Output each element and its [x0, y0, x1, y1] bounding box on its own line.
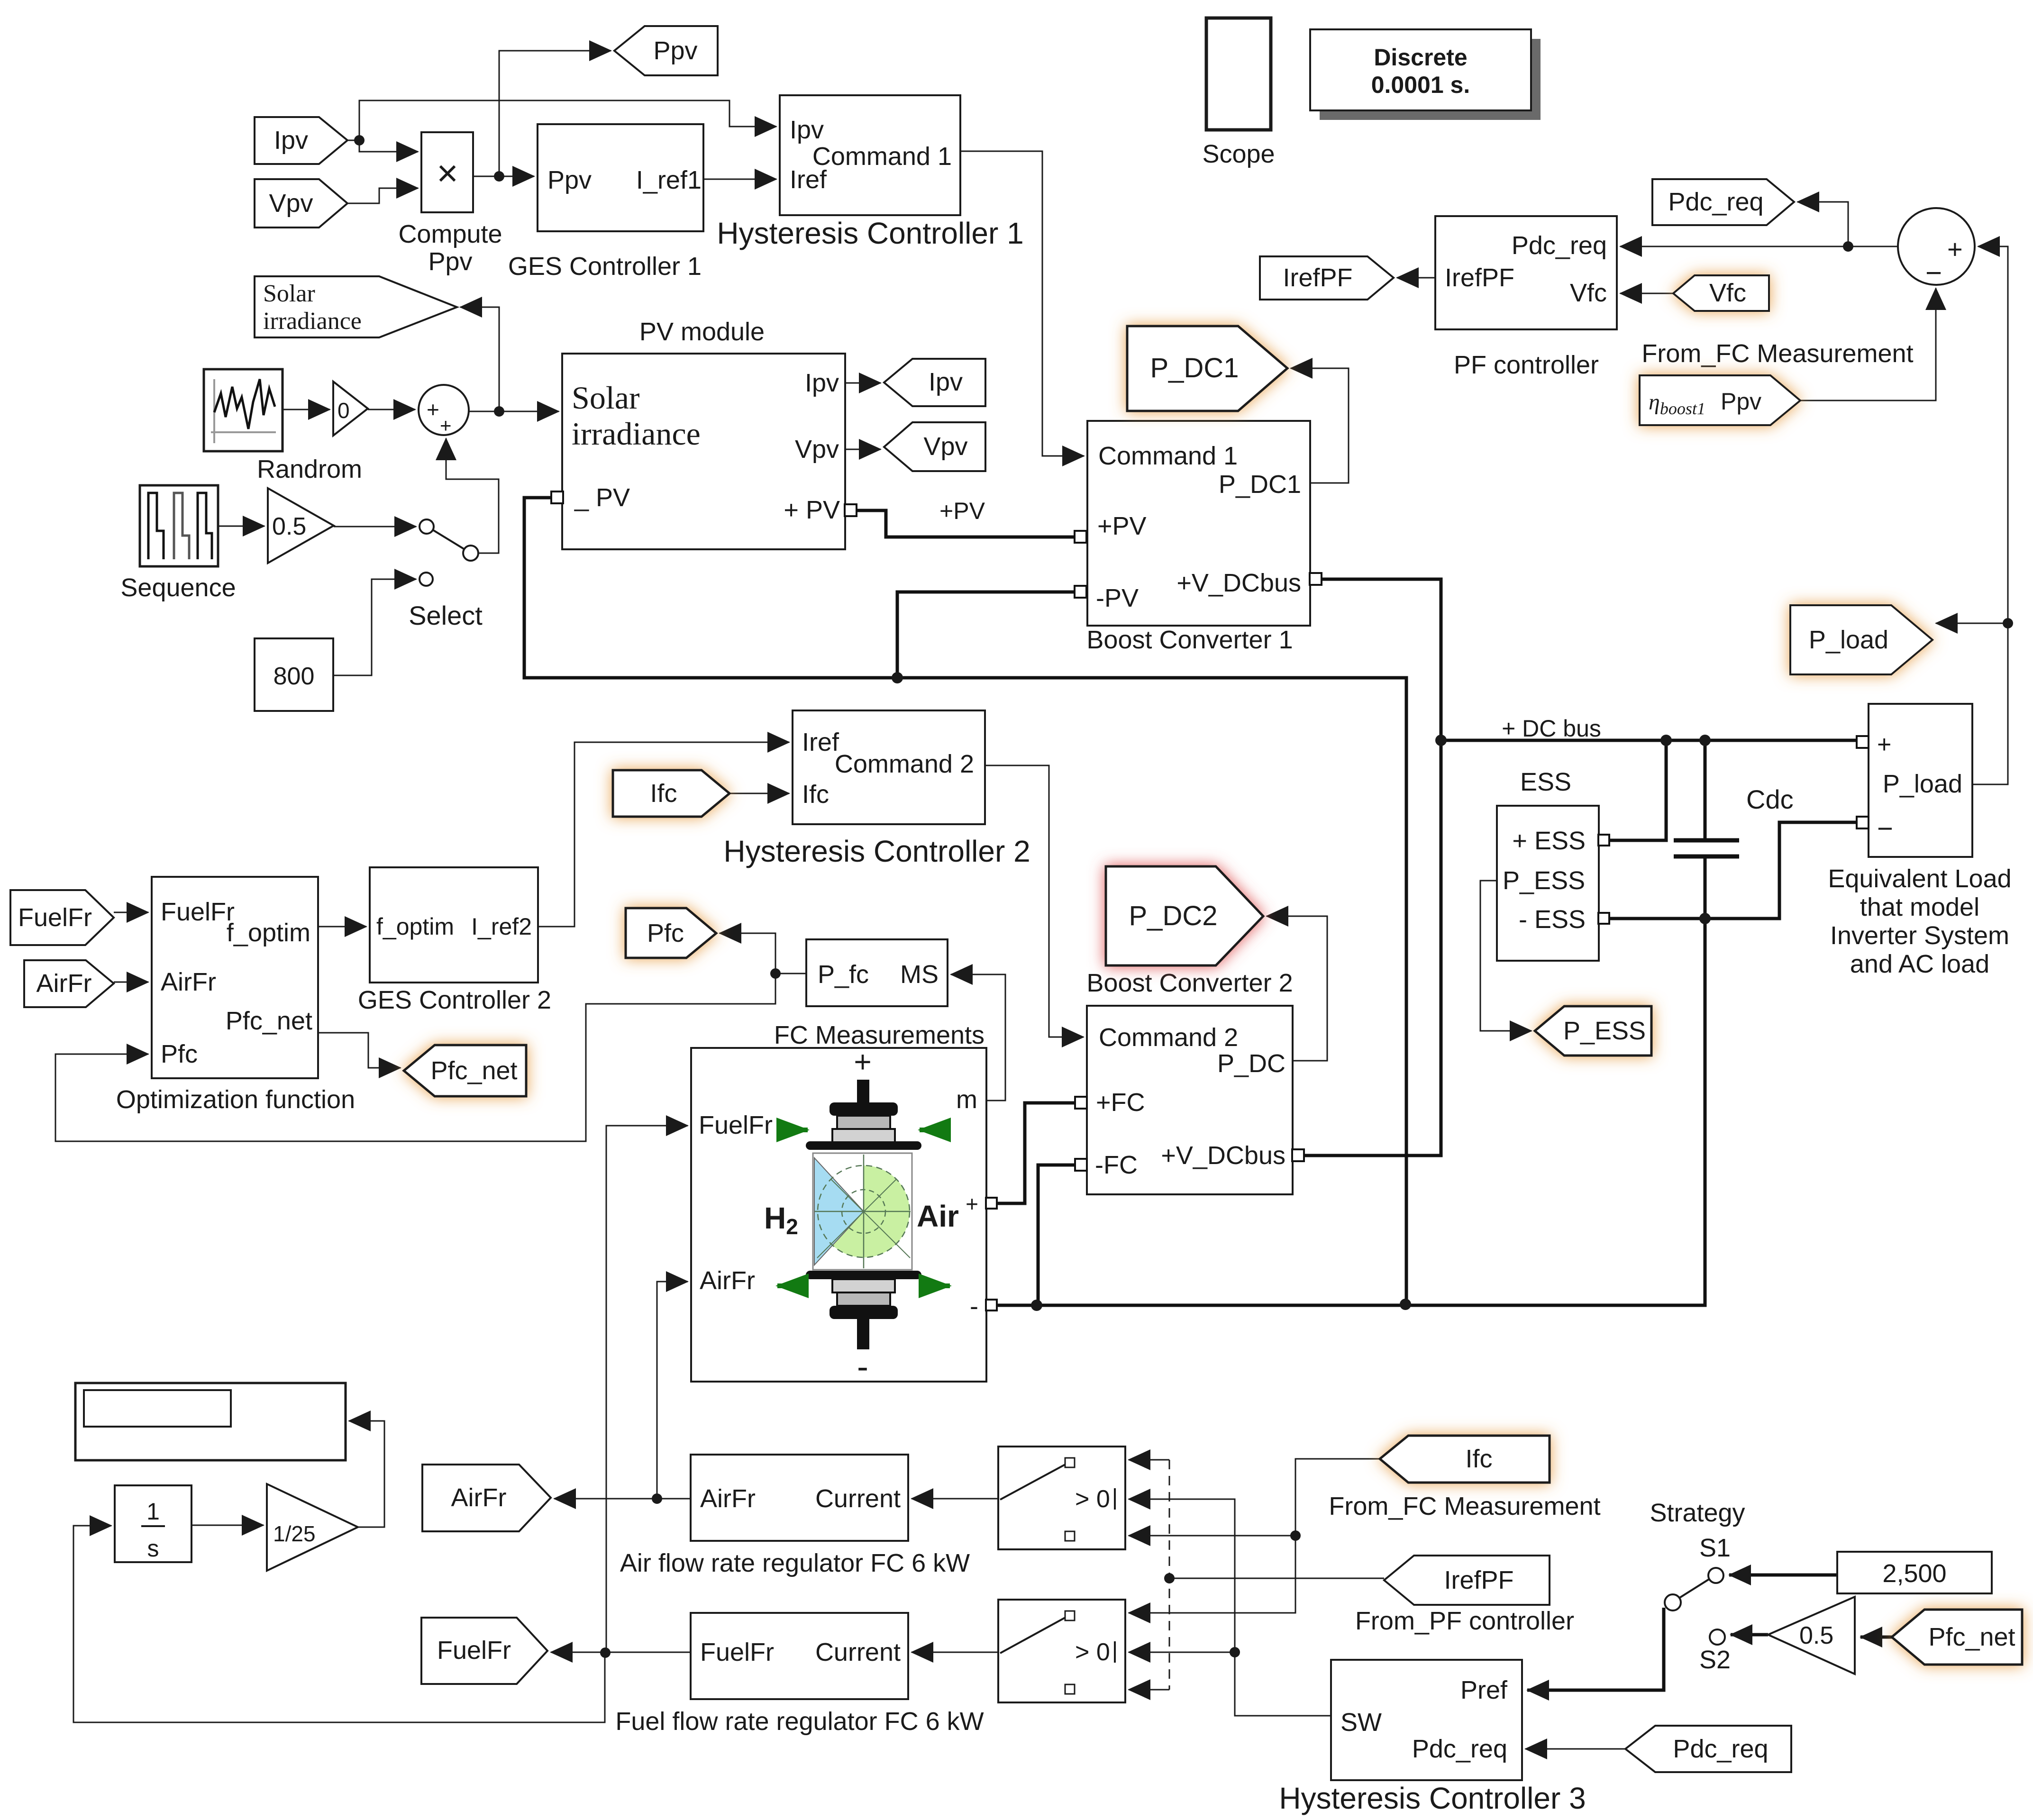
sum 2 — [1898, 208, 1975, 289]
svg-text:that model: that model — [1860, 893, 1979, 921]
wire Compute Ppv output to GES Controller 1 Ppv input — [473, 176, 534, 177]
svg-text:Randrom: Randrom — [257, 455, 362, 483]
block switch 1 — [998, 1447, 1125, 1549]
svg-text:From_FC Measurement: From_FC Measurement — [1329, 1492, 1600, 1520]
svg-text:Pref: Pref — [1460, 1676, 1508, 1704]
svg-text:+PV: +PV — [1097, 512, 1147, 540]
svg-text:Fuel flow rate regulator FC 6: Fuel flow rate regulator FC 6 kW — [615, 1707, 984, 1736]
gain 0.5 — [268, 488, 334, 563]
svg-text:Iref: Iref — [790, 165, 827, 194]
svg-text:ESS: ESS — [1520, 768, 1571, 796]
port FC minus — [986, 1300, 997, 1310]
wire switch 1 output to Air regulator Current input — [912, 1498, 998, 1500]
svg-text:800: 800 — [273, 663, 315, 690]
wire -PV power from Boost Converter 1 down to negative bus — [897, 592, 1075, 678]
wire Command 2 from Hysteresis Controller 2 to Boost Converter 2 — [985, 765, 1084, 1037]
svg-text:SW: SW — [1340, 1708, 1382, 1737]
capacitor Cdc — [1674, 840, 1739, 856]
svg-text:f_optim: f_optim — [376, 913, 454, 940]
wire eta_boost1 Ppv tag to sum 2 minus input — [1800, 288, 1936, 400]
svg-text:Hysteresis Controller 2: Hysteresis Controller 2 — [723, 834, 1030, 868]
tag P_load goto — [1790, 605, 1933, 674]
svg-text:irradiance: irradiance — [263, 308, 362, 335]
svg-text:Ifc: Ifc — [1465, 1445, 1492, 1473]
tag IrefPF goto — [1260, 256, 1394, 300]
svg-text:Vfc: Vfc — [1709, 279, 1746, 307]
svg-text:1: 1 — [146, 1498, 160, 1525]
tag Ipv from — [255, 117, 347, 164]
wire + DC bus — [1441, 739, 1857, 742]
svg-text:Hysteresis Controller 1: Hysteresis Controller 1 — [717, 216, 1023, 250]
tag Pdc_req goto top — [1652, 179, 1794, 225]
wire Vfc from tag to PF controller Vfc input — [1620, 293, 1673, 294]
svg-text:Ifc: Ifc — [650, 779, 677, 808]
svg-text:+: + — [966, 1192, 978, 1216]
block Boost Converter 2 — [1086, 969, 1293, 1194]
svg-text:Pdc_req: Pdc_req — [1512, 231, 1607, 260]
svg-text:and AC load: and AC load — [1850, 950, 1989, 978]
block Sequence source — [120, 485, 236, 602]
fuel cell icon — [764, 1045, 959, 1386]
svg-text:0: 0 — [337, 398, 350, 423]
svg-text:s: s — [147, 1535, 159, 1562]
block Compute Ppv (product) — [398, 132, 502, 276]
gain 0 — [333, 382, 368, 436]
svg-text:+V_DCbus: +V_DCbus — [1161, 1141, 1285, 1170]
block Scope — [1202, 18, 1275, 168]
svg-text:Vpv: Vpv — [269, 189, 313, 218]
svg-text:+: + — [1877, 731, 1891, 758]
wire Random to gain 0 — [283, 409, 330, 410]
svg-text:1/25: 1/25 — [273, 1521, 316, 1546]
wire +V_DCbus Boost Converter 1 to DC bus column — [1304, 579, 1441, 1156]
block Discrete 0.0001 s — [1310, 29, 1541, 120]
wire switch 2 output to Fuel regulator Current input — [912, 1652, 998, 1653]
svg-text:P_fc: P_fc — [818, 960, 869, 989]
svg-text:PF controller: PF controller — [1454, 351, 1599, 379]
svg-text:Pdc_req: Pdc_req — [1673, 1735, 1768, 1763]
svg-text:P_ESS: P_ESS — [1563, 1017, 1646, 1045]
block Hysteresis Controller 1 — [717, 95, 1023, 250]
wire Pdc_req from tag to Hysteresis Controller 3 — [1525, 1748, 1625, 1750]
tag Ppv goto — [614, 26, 718, 75]
svg-text:- ESS: - ESS — [1519, 905, 1586, 934]
svg-text:FuelFr: FuelFr — [437, 1636, 511, 1665]
svg-text:IrefPF: IrefPF — [1445, 264, 1514, 292]
wire GES Controller 2 I_ref2 to Hysteresis Controller 2 Iref — [538, 742, 789, 927]
svg-text:GES Controller 2: GES Controller 2 — [358, 986, 551, 1014]
svg-text:Ppv: Ppv — [428, 247, 472, 276]
svg-text:Boost Converter 2: Boost Converter 2 — [1086, 969, 1293, 997]
svg-text:Sequence: Sequence — [120, 573, 236, 602]
wire Command 1 from Hysteresis Controller 1 to Boost Converter 1 — [960, 151, 1084, 456]
svg-text:Ifc: Ifc — [802, 780, 829, 809]
junction DC bus column — [1435, 735, 1447, 746]
tag P_ESS goto — [1535, 1006, 1651, 1056]
wire Optimization Pfc_net output to Pfc_net goto tag — [318, 1033, 401, 1068]
wire + ESS to DC bus — [1610, 740, 1666, 840]
svg-text:Current: Current — [815, 1638, 901, 1666]
svg-text:IrefPF: IrefPF — [1283, 264, 1352, 292]
wire gain 0 to sum — [368, 409, 415, 410]
junction Ipv branch — [354, 135, 365, 146]
svg-text:+ ESS: + ESS — [1512, 827, 1586, 855]
wire Boost Converter 2 P_DC output to P_DC2 tag — [1267, 916, 1327, 1061]
svg-text:> 0: > 0 — [1075, 1638, 1110, 1666]
svg-text:FuelFr: FuelFr — [700, 1638, 774, 1666]
tag Vfc from — [1673, 275, 1769, 311]
tag FuelFr from — [10, 890, 114, 945]
tag Pdc_req from bottom — [1625, 1726, 1791, 1772]
block Optimization function — [116, 877, 355, 1114]
port ESS +ESS — [1598, 835, 1609, 846]
wire AirFr column up to FC AirFr input — [657, 1282, 688, 1499]
wire FC minus bus — [997, 856, 1705, 1305]
tag Ifc from bottom — [1380, 1436, 1550, 1483]
wire PF controller IrefPF output to IrefPF goto tag — [1397, 277, 1435, 279]
wire negative bus from PV module _PV — [524, 498, 1406, 1304]
svg-text:_ PV: _ PV — [574, 483, 630, 512]
junction SW switch column — [1230, 1647, 1240, 1657]
wire PV module Ipv output to Ipv goto tag — [845, 382, 881, 384]
wire to switch 2 input 3 — [1129, 1689, 1169, 1691]
tag IrefPF from bottom — [1384, 1556, 1550, 1605]
svg-text:AirFr: AirFr — [161, 968, 216, 996]
svg-text:Pfc: Pfc — [647, 919, 684, 947]
block Hysteresis Controller 3 — [1279, 1660, 1586, 1815]
svg-text:Ipv: Ipv — [274, 126, 308, 155]
svg-text:Ipv: Ipv — [805, 369, 839, 397]
svg-text:From_PF controller: From_PF controller — [1355, 1607, 1574, 1635]
wire Pfc_net from tag to gain 0.5 — [1860, 1636, 1892, 1639]
wire branch up to Pdc_req goto tag — [1797, 202, 1848, 246]
svg-text:Optimization function: Optimization function — [116, 1085, 355, 1114]
wire strategy switch common to Hysteresis Controller 3 Pref — [1527, 1608, 1664, 1690]
wire 2500 constant to strategy switch S1 — [1729, 1574, 1837, 1577]
svg-text:+ DC bus: + DC bus — [1502, 715, 1601, 742]
junction Pdc_req branch — [1843, 241, 1853, 252]
wire sum output to PV module input — [469, 411, 559, 412]
svg-text:Cdc: Cdc — [1746, 784, 1794, 814]
tag AirFr from — [24, 960, 114, 1007]
svg-text:f_optim: f_optim — [227, 919, 310, 947]
svg-text:−: − — [1925, 257, 1942, 289]
svg-text:Air flow rate regulator FC 6 k: Air flow rate regulator FC 6 kW — [620, 1549, 970, 1577]
block PV module — [562, 318, 845, 549]
svg-text:Command 1: Command 1 — [812, 142, 952, 171]
wire -FC from Boost Converter 2 — [1038, 1165, 1076, 1305]
junction -PV on negative bus — [892, 672, 903, 683]
port Boost 1 +V_DCbus — [1310, 573, 1322, 585]
wire Optimization f_optim to GES Controller 2 — [318, 926, 366, 928]
wire Boost Converter 1 P_DC1 output to P_DC1 tag — [1291, 368, 1349, 483]
svg-text:GES Controller 1: GES Controller 1 — [508, 252, 702, 281]
svg-text:Ppv: Ppv — [1721, 388, 1761, 415]
wire IrefPF from tag to dashed column — [1169, 1578, 1384, 1579]
svg-text:FuelFr: FuelFr — [161, 898, 235, 926]
wire gain 0.5 to strategy switch S2 — [1731, 1633, 1768, 1637]
svg-text:−: − — [1877, 813, 1893, 844]
wire Ifc from tag down to switch 2 input 1 — [1129, 1459, 1380, 1613]
block PF controller — [1435, 216, 1617, 379]
svg-text:FuelFr: FuelFr — [699, 1111, 773, 1139]
svg-text:> 0: > 0 — [1075, 1485, 1110, 1513]
block 2500 constant — [1837, 1552, 1992, 1593]
block Air flow rate regulator — [620, 1455, 970, 1577]
tag Vpv from — [255, 179, 347, 227]
wire branch to Solar irradiance goto tag — [460, 307, 499, 411]
port squares — [551, 491, 1869, 1310]
svg-text:Equivalent Load: Equivalent Load — [1828, 864, 2011, 893]
wire branch up to Pfc goto tag — [720, 933, 775, 974]
wire Ipv tag to Compute Ppv input 1 — [347, 140, 418, 152]
wire +FC from FC to Boost Converter 2 — [997, 1103, 1076, 1203]
gain 0.5 strategy — [1768, 1597, 1855, 1674]
svg-text:Solar: Solar — [572, 380, 640, 416]
svg-text:×: × — [437, 152, 458, 194]
svg-text:+ PV: + PV — [784, 496, 840, 524]
svg-text:P_DC1: P_DC1 — [1219, 470, 1301, 499]
port Equivalent Load minus — [1857, 817, 1869, 828]
svg-text:P_DC: P_DC — [1217, 1049, 1285, 1078]
tag Solar irradiance goto — [255, 276, 457, 337]
wire dashed column IrefPF — [1169, 1460, 1170, 1690]
junction -ESS Cdc riser — [1699, 913, 1711, 924]
sum 1 — [419, 385, 469, 437]
port PV module +PV — [845, 504, 857, 516]
svg-text:2,500: 2,500 — [1882, 1559, 1946, 1588]
wire SW branch to switch 2 control — [1129, 1652, 1235, 1653]
svg-text:irradiance: irradiance — [572, 416, 701, 452]
wire - ESS to riser — [1610, 917, 1705, 920]
svg-text:-: - — [857, 1348, 868, 1386]
svg-text:AirFr: AirFr — [36, 969, 92, 998]
svg-text:Pfc: Pfc — [161, 1040, 198, 1068]
wire branch to P_load goto tag — [1936, 623, 2008, 624]
svg-text:Vpv: Vpv — [795, 435, 839, 464]
svg-text:-: - — [970, 1292, 978, 1320]
wire to switch 1 input 1 — [1129, 1459, 1169, 1461]
svg-text:Pdc_req: Pdc_req — [1668, 188, 1763, 216]
svg-text:Discrete: Discrete — [1374, 44, 1467, 71]
tag Vpv goto — [884, 422, 985, 471]
svg-text:Boost Converter 1: Boost Converter 1 — [1086, 626, 1293, 654]
wire Pfc feedback loop to Optimization Pfc input — [55, 974, 775, 1141]
wire feedback to integrator 1/s input — [73, 1526, 605, 1722]
svg-text:AirFr: AirFr — [451, 1483, 507, 1512]
wire Fuel regulator FuelFr output to FuelFr goto tag — [551, 1652, 691, 1653]
svg-text:+: + — [427, 397, 439, 422]
svg-text:AirFr: AirFr — [700, 1484, 756, 1513]
port PV module _PV — [551, 491, 563, 503]
wire Cdc top riser — [1704, 740, 1707, 840]
tag P_DC2 goto — [1106, 866, 1263, 965]
wire +PV power from PV module to Boost Converter 1 — [857, 510, 1075, 537]
svg-text:+: + — [854, 1045, 871, 1079]
junction FuelFr column — [600, 1647, 611, 1658]
svg-text:Compute: Compute — [398, 220, 502, 248]
svg-text:MS: MS — [900, 960, 939, 989]
svg-text:FC Measurements: FC Measurements — [774, 1021, 985, 1049]
block Fuel flow rate regulator — [615, 1613, 984, 1736]
block GES Controller 2 — [358, 867, 551, 1014]
junction negative bus B — [1400, 1299, 1411, 1310]
svg-text:+FC: +FC — [1096, 1088, 1145, 1117]
svg-text:FuelFr: FuelFr — [18, 903, 92, 932]
svg-text:S2: S2 — [1699, 1646, 1731, 1674]
svg-text:0.5: 0.5 — [272, 513, 306, 540]
wire Ppv branch up to Ppv goto tag — [499, 51, 611, 176]
svg-text:+: + — [440, 414, 452, 437]
svg-text:Ipv: Ipv — [790, 116, 824, 144]
svg-text:PV module: PV module — [639, 318, 765, 346]
junction solar irradiance branch — [494, 406, 504, 417]
svg-text:Ppv: Ppv — [653, 36, 697, 65]
svg-text:IrefPF: IrefPF — [1444, 1566, 1513, 1594]
svg-text:Pfc_net: Pfc_net — [226, 1007, 312, 1035]
wire Ipv branch to Hysteresis Controller 1 Ipv input — [359, 100, 776, 140]
port Equivalent Load plus — [1857, 736, 1869, 748]
port Boost 2 +FC — [1075, 1097, 1087, 1109]
svg-text:-FC: -FC — [1095, 1151, 1138, 1179]
block FC fuel cell subsystem — [691, 1048, 986, 1382]
block Display — [75, 1383, 346, 1460]
port FC plus — [986, 1198, 997, 1209]
svg-text:I_ref1: I_ref1 — [636, 166, 702, 194]
wire Ifc from tag to Hysteresis Controller 2 Ifc input — [729, 793, 789, 794]
svg-text:Vpv: Vpv — [923, 432, 967, 461]
wire gain 1/25 up to Display input — [349, 1421, 384, 1527]
strategy manual switch — [1665, 1568, 1725, 1645]
tag Pfc_net goto — [404, 1045, 526, 1096]
tag FuelFr goto bottom — [421, 1618, 547, 1684]
svg-text:I_ref2: I_ref2 — [471, 913, 532, 940]
svg-text:Pfc_net: Pfc_net — [430, 1056, 517, 1085]
block ESS — [1497, 768, 1599, 961]
port Boost 2 -FC — [1075, 1159, 1087, 1171]
tag Pfc goto — [626, 908, 716, 958]
block FC Measurements (P_fc MS) — [774, 939, 985, 1049]
svg-text:Ipv: Ipv — [929, 368, 963, 396]
junction Ifc switch column — [1290, 1530, 1301, 1541]
block switch 2 — [998, 1600, 1125, 1702]
wire AirFr from tag to Optimization function — [114, 982, 148, 983]
block Boost Converter 1 — [1086, 421, 1310, 654]
junction IrefPF switch column — [1164, 1573, 1175, 1583]
wire Vpv tag to Compute Ppv input 2 — [347, 188, 418, 203]
wire PV module Vpv output to Vpv goto tag — [845, 449, 881, 450]
svg-text:Strategy: Strategy — [1650, 1499, 1745, 1527]
wire P_ESS from ESS — [1480, 881, 1532, 1031]
svg-text:Ppv: Ppv — [547, 166, 592, 194]
tag Ipv goto — [884, 359, 985, 406]
svg-text:+: + — [1947, 234, 1963, 264]
block Hysteresis Controller 2 — [723, 710, 1030, 868]
wire SW output of Hysteresis Controller 3 to switch 1 control — [1129, 1499, 1331, 1716]
svg-text:P_load: P_load — [1809, 626, 1888, 654]
svg-text:P_ESS: P_ESS — [1503, 866, 1585, 895]
wire Equivalent Load minus to riser — [1705, 822, 1857, 919]
manual switch Select — [409, 519, 483, 630]
tag eta_boost1 Ppv from — [1640, 375, 1800, 425]
block Equivalent Load — [1828, 704, 2011, 978]
svg-text:Hysteresis Controller 3: Hysteresis Controller 3 — [1279, 1781, 1586, 1815]
port Boost 1 +PV — [1075, 531, 1086, 543]
tag P_DC1 goto — [1127, 326, 1287, 411]
block GES Controller 1 — [508, 124, 703, 281]
wire FuelFr column up to FC FuelFr input — [606, 1126, 688, 1653]
wire integrator to gain 1/25 — [191, 1525, 264, 1526]
svg-text:Iref: Iref — [802, 728, 839, 756]
junction -FC on minus bus — [1031, 1300, 1042, 1311]
svg-text:Select: Select — [409, 601, 483, 630]
svg-text:Current: Current — [815, 1484, 901, 1513]
svg-text:Command 2: Command 2 — [835, 750, 974, 778]
port Boost 2 +V_DCbus — [1292, 1149, 1304, 1161]
svg-text:Command 1: Command 1 — [1098, 442, 1238, 470]
svg-text:Air: Air — [917, 1199, 959, 1233]
gain 1/25 — [267, 1484, 358, 1571]
wire 800 constant to manual switch lower contact — [333, 579, 416, 675]
port ESS -ESS — [1598, 913, 1609, 924]
wire gain 0.5 to manual switch upper contact — [334, 526, 416, 528]
wire FC m output to FC Measurements MS input — [951, 974, 1005, 1101]
wire Equivalent Load P_load output up to sum 2 plus input — [1972, 246, 2008, 784]
tag Ifc from — [613, 770, 729, 817]
svg-text:Scope: Scope — [1202, 140, 1275, 168]
wire GES Controller 1 I_ref1 to Hysteresis Controller 1 Iref — [703, 179, 776, 180]
svg-text:P_load: P_load — [1883, 770, 1962, 798]
svg-text:P_DC1: P_DC1 — [1150, 353, 1239, 383]
junction Cdc on DC bus — [1699, 735, 1711, 746]
svg-text:+PV: +PV — [939, 498, 985, 524]
svg-text:P_DC2: P_DC2 — [1129, 901, 1218, 931]
wire manual switch output to sum lower input — [446, 438, 499, 553]
wire P_fc input of FC Measurements — [775, 973, 806, 974]
svg-text:0.5: 0.5 — [1799, 1622, 1833, 1649]
block 800 constant — [255, 638, 333, 711]
junction P_fc branch — [770, 968, 781, 979]
junction +ESS on DC bus — [1660, 735, 1672, 746]
junction AirFr column — [652, 1493, 662, 1504]
svg-text:+V_DCbus: +V_DCbus — [1176, 569, 1301, 597]
wire sum 2 output to PF controller Pdc_req input — [1620, 246, 1897, 247]
svg-text:Pfc_net: Pfc_net — [1928, 1623, 2015, 1651]
svg-text:Inverter System: Inverter System — [1830, 921, 2009, 950]
wire Ifc branch to switch 1 input 3 — [1129, 1535, 1295, 1537]
svg-text:-PV: -PV — [1096, 584, 1139, 612]
svg-text:0.0001 s.: 0.0001 s. — [1371, 72, 1470, 98]
svg-text:From_FC Measurement: From_FC Measurement — [1641, 339, 1913, 368]
block Random source — [204, 369, 362, 483]
svg-text:Solar: Solar — [263, 280, 315, 307]
svg-text:m: m — [956, 1085, 977, 1114]
tag Pfc_net from bottom — [1892, 1610, 2022, 1665]
wire Air regulator AirFr output to AirFr goto tag — [554, 1498, 691, 1500]
junction Ppv branch — [494, 171, 504, 182]
port Boost 1 -PV — [1075, 586, 1086, 598]
wire FuelFr from tag to Optimization function — [114, 912, 148, 913]
svg-text:S1: S1 — [1699, 1534, 1731, 1562]
svg-text:Vfc: Vfc — [1570, 279, 1607, 307]
svg-text:Pdc_req: Pdc_req — [1412, 1735, 1507, 1763]
junction P_load branch — [2003, 618, 2013, 628]
block integrator 1/s — [115, 1485, 191, 1562]
svg-text:Command 2: Command 2 — [1099, 1023, 1238, 1052]
wire Sequence to gain 0.5 — [218, 526, 264, 527]
svg-text:AirFr: AirFr — [700, 1266, 755, 1295]
tag AirFr goto bottom — [422, 1465, 551, 1531]
